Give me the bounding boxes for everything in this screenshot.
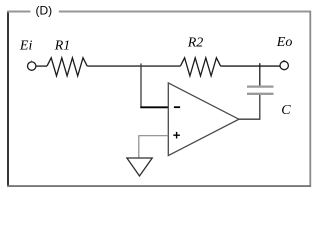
wire to inverting input (140, 106, 168, 108)
wire R2 to output terminal (221, 65, 280, 67)
svg-text:Eo: Eo (276, 35, 293, 50)
node junction wire down to inverting input (140, 63, 142, 107)
frame right border (309, 11, 311, 187)
frame left border (7, 11, 9, 187)
svg-text:Ei: Ei (19, 38, 33, 53)
wire R1 to R2 (87, 65, 180, 67)
capacitor C plates (247, 87, 274, 94)
capacitor C top lead with junction tick (259, 63, 261, 86)
wire terminal to R1 (36, 65, 47, 67)
resistor R2 (180, 58, 220, 76)
op-amp U1 (168, 83, 239, 156)
svg-text:(D): (D) (36, 3, 53, 17)
input terminal Ei (28, 62, 36, 70)
op-amp plus pin label (173, 132, 180, 139)
frame bottom border (7, 185, 311, 187)
wire op-amp output up to capacitor (239, 94, 260, 119)
svg-text:R1: R1 (54, 38, 71, 53)
input terminal top tick (31, 61, 33, 63)
output terminal top tick (283, 60, 285, 62)
output terminal Eo (280, 61, 288, 69)
svg-text:C: C (281, 103, 291, 118)
ground (127, 158, 152, 176)
resistor R1 (47, 58, 87, 76)
op-amp minus pin label (174, 106, 180, 108)
frame top border (right of label) (59, 11, 311, 13)
svg-text:R2: R2 (187, 35, 204, 50)
frame top border (left of label) (7, 11, 30, 13)
wire noninverting input to ground (139, 136, 169, 158)
